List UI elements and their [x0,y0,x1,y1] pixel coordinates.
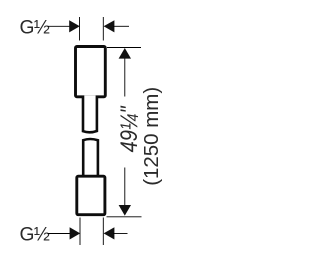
top dimension leader line left [48,25,72,27]
bottom dimension arrow left (points right) [70,227,81,239]
bottom extension line right [102,218,104,246]
svg-text:G½: G½ [20,18,50,39]
top dimension tail line right [113,25,129,27]
top extension line left [79,17,81,41]
length dimension arrow up [119,48,131,59]
top extension line right [102,17,104,41]
length extension line top [107,47,141,49]
bottom dimension tail line right [113,233,128,235]
bottom extension line left [79,218,81,246]
length dimension arrow down [119,205,131,216]
svg-text:49¼": 49¼" [116,105,143,152]
length dimension line upper segment [124,56,126,97]
length extension line bottom [107,216,142,218]
top hose stem with break line [83,96,97,133]
svg-text:(1250 mm): (1250 mm) [141,87,163,186]
bottom connector nut [77,176,105,215]
top dimension arrow right (points left) [104,20,115,32]
top dimension arrow left (points right) [69,20,80,32]
top connector nut [76,47,106,97]
svg-text:G½: G½ [20,225,50,246]
length dimension line lower segment [124,168,126,208]
bottom dimension leader line left [48,233,72,235]
bottom dimension arrow right (points left) [104,227,115,239]
bottom hose stem with break line [83,139,98,177]
